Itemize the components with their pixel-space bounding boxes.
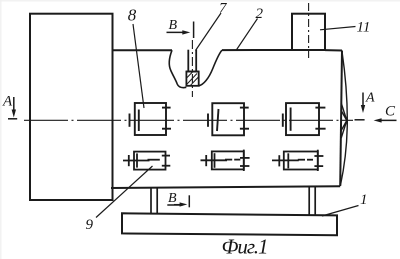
notch outline (169, 50, 222, 88)
slot centerline (191, 40, 193, 97)
svg-text:A: A (2, 94, 13, 110)
leader 11 (320, 27, 356, 30)
base 1 (122, 213, 337, 235)
roller box 8 (top-left) (130, 103, 172, 135)
left support leg (151, 188, 157, 214)
view arrow C (374, 118, 397, 122)
section marker B top (167, 22, 194, 39)
housing (left large box) (30, 14, 113, 200)
svg-text:2: 2 (256, 6, 264, 22)
cylinder 11 centerline (308, 3, 310, 58)
leader 7 (196, 13, 222, 51)
leader 8 (133, 24, 144, 108)
leader 9 (96, 166, 153, 218)
svg-text:1: 1 (360, 192, 368, 208)
svg-text:C: C (385, 104, 396, 120)
roller box (bottom-right) (272, 150, 323, 171)
section marker B bottom (167, 195, 189, 207)
leader 1 (322, 206, 359, 217)
svg-text:9: 9 (86, 217, 94, 233)
cylinder 11 (292, 14, 325, 50)
slot hatch (187, 72, 199, 85)
svg-text:B: B (169, 18, 178, 33)
section marker A right (355, 93, 366, 120)
main centerline (24, 119, 353, 121)
roller box 9 (bottom-left) (123, 152, 170, 170)
svg-text:Фиг.1: Фиг.1 (222, 235, 268, 259)
svg-text:11: 11 (357, 20, 371, 36)
leader 2 (236, 19, 258, 51)
body 2 outline (111, 50, 342, 188)
roller box (bottom-middle) (201, 150, 250, 171)
section marker A left (8, 97, 17, 119)
slot 7 walls (186, 50, 199, 86)
svg-text:7: 7 (219, 1, 228, 17)
roller box (top-middle) (208, 103, 249, 135)
svg-text:A: A (365, 91, 375, 106)
right end lens (340, 52, 347, 186)
svg-text:8: 8 (128, 6, 137, 25)
right support leg (309, 186, 315, 215)
roller box (top-right) (283, 103, 326, 135)
svg-text:B: B (168, 191, 177, 206)
